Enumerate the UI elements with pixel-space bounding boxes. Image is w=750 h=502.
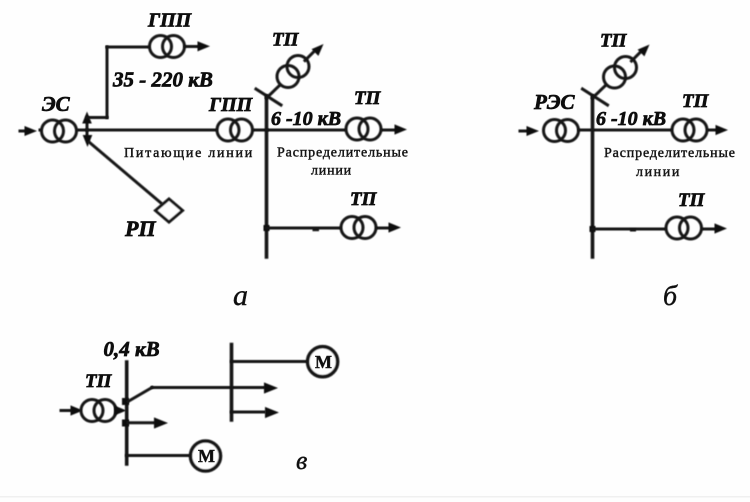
wire: branch arrow from busbar 1 — [128, 421, 154, 424]
svg-text:б: б — [663, 281, 678, 312]
svg-text:ГПП: ГПП — [208, 94, 254, 116]
arrowhead end of distribution main б — [716, 125, 729, 135]
svg-text:35 - 220 кВ: 35 - 220 кВ — [112, 68, 213, 92]
svg-text:Питающие линии: Питающие линии — [124, 146, 254, 161]
wire: diagonal branch to ТП top б — [593, 85, 607, 98]
transformer ТП top б (diagonal) — [604, 57, 637, 89]
wire: bottom branch to motor M1 — [127, 454, 191, 457]
tick: slash at top of bus б — [583, 89, 608, 105]
svg-text:ТП: ТП — [682, 91, 710, 112]
node: junction dot on bus a — [264, 225, 270, 231]
svg-text:ТП: ТП — [85, 371, 113, 392]
wire: feed into ТП в — [61, 409, 70, 412]
label Распределительные (a) — [277, 146, 409, 161]
wire: lower distribution branch б — [593, 228, 719, 231]
arrowhead into РЭС — [527, 126, 540, 136]
transformer ГПП (top) — [150, 36, 185, 58]
blob on branch б — [630, 229, 636, 232]
label в — [296, 446, 307, 475]
wire: diagonal branch to ТП top a — [267, 85, 281, 98]
svg-text:ТП: ТП — [600, 31, 628, 52]
label ТП right б — [682, 91, 710, 112]
arrowhead into ЭС — [25, 126, 38, 136]
svg-text:М: М — [315, 352, 332, 372]
svg-text:линии: линии — [636, 165, 681, 180]
svg-text:М: М — [198, 446, 215, 466]
label ТП top a — [272, 30, 300, 51]
label Питающие линии — [124, 146, 254, 161]
wire: ТП top a output stub — [305, 52, 314, 61]
transformer ТП right б — [672, 119, 707, 141]
wire: trunk line to busbar 2 — [152, 386, 264, 389]
motor M2 — [308, 347, 338, 377]
wire: branch to motor M2 — [232, 360, 309, 363]
node: junction at ЭС output with up arrow — [82, 112, 92, 131]
wire: lower branch from busbar 2 — [232, 411, 265, 414]
label ТП lower б — [678, 190, 706, 211]
label линии (a) — [311, 164, 352, 179]
svg-text:в: в — [296, 446, 307, 475]
wire: 6-10 kV distribution main б — [579, 129, 717, 132]
transformer ТП right a — [346, 118, 381, 140]
label ТП в — [85, 371, 113, 392]
bus: 6-10 kV vertical bus б — [591, 96, 595, 257]
transformer РЭС — [544, 120, 579, 142]
label М in motor M1 — [198, 446, 215, 466]
label 35 - 220 кВ — [112, 68, 213, 92]
svg-text:а: а — [233, 279, 248, 312]
blob on branch a — [313, 228, 320, 231]
node: junction square lower on busbar 1 — [122, 420, 129, 427]
wire: source feed line into РЭС — [520, 130, 527, 133]
motor M1 — [191, 441, 221, 471]
node: junction at ЭС output with down arrow — [83, 130, 93, 147]
label ГПП middle — [208, 94, 254, 116]
svg-text:ТП: ТП — [350, 189, 378, 210]
wire: diagonal riser from busbar 1 — [128, 388, 152, 402]
bus: 0.4 kV busbar 2 — [230, 345, 234, 421]
svg-text:0,4 кВ: 0,4 кВ — [104, 337, 160, 361]
wire: source feed line into ЭС — [20, 130, 28, 133]
svg-text:ТП: ТП — [354, 88, 382, 109]
arrowhead ТП top a output — [312, 44, 324, 56]
svg-text:Распределительные: Распределительные — [277, 146, 409, 161]
label ТП lower a — [350, 189, 378, 210]
arrowhead trunk line — [264, 382, 278, 393]
arrowhead lower branch a — [389, 222, 402, 232]
label РП — [124, 216, 156, 241]
wire: 6-10 kV distribution main a — [267, 129, 396, 132]
arrowhead ГПП top output — [198, 41, 211, 51]
svg-text:Распределительные: Распределительные — [604, 146, 736, 161]
label 6 -10 кВ a — [271, 108, 341, 130]
transformer ТП top a (diagonal) — [277, 56, 309, 88]
label 0,4 кВ — [104, 337, 160, 361]
svg-text:6 -10 кВ: 6 -10 кВ — [596, 108, 666, 130]
label ГПП top — [147, 10, 193, 32]
svg-text:ГПП: ГПП — [147, 10, 193, 32]
transformer ЭС (power station) — [42, 120, 77, 142]
svg-text:ЭС: ЭС — [42, 92, 71, 116]
РП distribution point (diamond) — [156, 199, 183, 222]
wire: riser up to ГПП feeder — [106, 47, 109, 118]
wire: main 35-220 kV line a — [40, 129, 267, 132]
svg-text:ТП: ТП — [678, 190, 706, 211]
label ЭС — [42, 92, 71, 116]
arrowhead lower branch б — [715, 223, 728, 233]
label 6 -10 кВ б — [596, 108, 666, 130]
label М in motor M2 — [315, 352, 332, 372]
label Распределительные (б) — [604, 146, 736, 161]
wire: diagonal feeder to РП — [89, 142, 161, 203]
wire: top feeder to ГПП — [107, 46, 152, 49]
label РЭС — [533, 90, 575, 114]
label а — [233, 279, 248, 312]
wire: ГПП top output stub — [185, 45, 198, 48]
transformer ГПП (middle) — [217, 119, 253, 141]
arrowhead ТП top б output — [638, 45, 650, 57]
label линии (б) — [636, 165, 681, 180]
bus: 0.4 kV busbar 1 — [125, 362, 129, 464]
tick: slash at top of bus a — [256, 89, 281, 105]
label ТП right a — [354, 88, 382, 109]
svg-text:РЭС: РЭС — [533, 90, 575, 114]
wire: ТП top б output stub — [632, 52, 641, 61]
svg-text:ТП: ТП — [272, 30, 300, 51]
svg-text:линии: линии — [311, 164, 352, 179]
node: junction square upper on busbar 1 — [122, 398, 129, 405]
arrowhead end of distribution main a — [395, 124, 408, 134]
bus: 6-10 kV vertical bus a — [265, 96, 269, 257]
transformer ТП lower a — [341, 217, 376, 239]
wire: jog from junction to riser — [87, 116, 107, 119]
node: junction dot on bus б — [590, 226, 596, 232]
arrowhead into ТП в — [71, 405, 84, 415]
label ТП top б — [600, 31, 628, 52]
arrowhead ТП в output into bus — [114, 405, 127, 415]
wire: lower distribution branch a — [267, 227, 393, 230]
svg-text:6 -10 кВ: 6 -10 кВ — [271, 108, 341, 130]
arrowhead lower branch busbar 2 — [265, 407, 279, 418]
transformer ТП lower б — [666, 217, 702, 239]
svg-text:РП: РП — [124, 216, 156, 241]
label б — [663, 281, 678, 312]
transformer ТП в — [81, 400, 116, 422]
faint page rule at bottom — [0, 496, 750, 498]
arrowhead branch from busbar 1 — [154, 417, 168, 428]
